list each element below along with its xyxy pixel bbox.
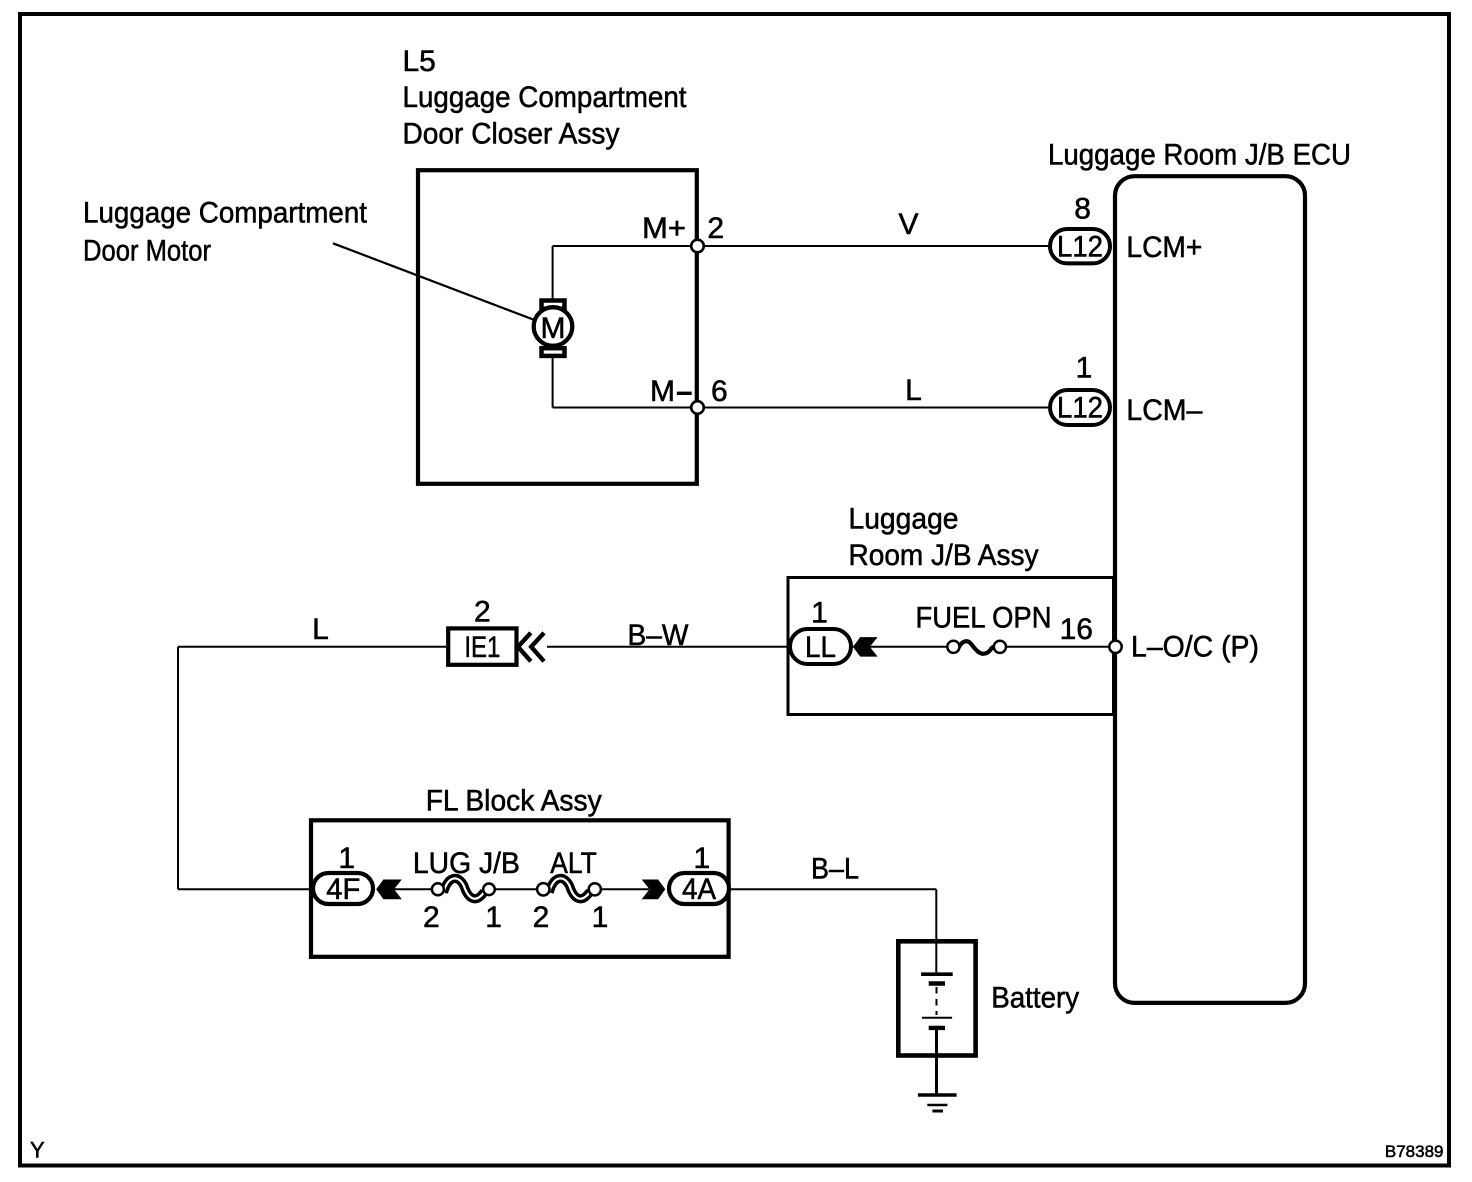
svg-text:Door Motor: Door Motor bbox=[83, 234, 211, 267]
svg-text:2: 2 bbox=[533, 901, 550, 934]
wire IE1 to LL bbox=[547, 646, 870, 648]
motor brush bottom bbox=[542, 348, 565, 356]
svg-text:M: M bbox=[650, 375, 675, 408]
svg-text:2: 2 bbox=[474, 595, 491, 628]
fusible link ALT right terminal bbox=[589, 883, 601, 895]
motor M circle bbox=[534, 307, 573, 346]
wire M- vertical from motor bbox=[552, 356, 554, 408]
pin 2 circle bbox=[691, 240, 704, 253]
pin 6 circle bbox=[691, 401, 704, 414]
connector IE1 box bbox=[448, 628, 516, 664]
svg-text:LUG J/B: LUG J/B bbox=[413, 847, 520, 880]
fuse FUEL OPN wave bbox=[958, 641, 995, 653]
svg-text:B–L: B–L bbox=[811, 853, 859, 886]
wire LUG to ALT bbox=[495, 888, 539, 890]
svg-text:Y: Y bbox=[30, 1138, 45, 1163]
svg-text:L12: L12 bbox=[1057, 392, 1103, 425]
label Luggage Compartment Door Motor bbox=[83, 197, 368, 268]
connector LL bbox=[790, 629, 851, 664]
wire B-L vertical to battery bbox=[935, 889, 937, 943]
wire 4F arrow to LUG fuse bbox=[394, 888, 438, 890]
svg-text:LCM–: LCM– bbox=[1126, 394, 1202, 427]
battery plate short bottom bbox=[929, 1026, 945, 1030]
chevrons at IE1 bbox=[518, 633, 544, 662]
wire M+ vertical from motor bbox=[552, 246, 554, 300]
svg-text:M: M bbox=[541, 312, 566, 345]
svg-text:B78389: B78389 bbox=[1385, 1142, 1444, 1161]
wire to IE1 bbox=[178, 646, 446, 648]
wire M- horizontal to L12 bbox=[553, 407, 1048, 409]
battery bottom wire to ground bbox=[935, 1030, 938, 1095]
svg-text:1: 1 bbox=[485, 901, 502, 934]
wire B-L horizontal bbox=[729, 888, 936, 890]
box Luggage Room J/B Assy bbox=[788, 578, 1114, 715]
motor brush top bbox=[542, 301, 565, 309]
svg-text:8: 8 bbox=[1074, 193, 1091, 226]
svg-text:L12: L12 bbox=[1057, 230, 1103, 263]
ECU body Luggage Room J/B ECU bbox=[1115, 176, 1305, 1003]
svg-text:B–W: B–W bbox=[628, 619, 690, 652]
svg-text:1: 1 bbox=[811, 597, 828, 630]
arrow at 4A bbox=[642, 880, 666, 900]
wire fuse to pin 16 bbox=[998, 646, 1113, 648]
wire to 4F bbox=[178, 888, 313, 890]
connector L12 pin 8 bbox=[1050, 229, 1110, 263]
svg-text:1: 1 bbox=[1076, 352, 1093, 385]
wire M+ horizontal to L12 bbox=[553, 245, 1048, 247]
label Luggage Room J/B Assy bbox=[849, 503, 1039, 573]
wire ALT to 4A arrow bbox=[601, 888, 649, 890]
svg-text:Luggage Room J/B ECU: Luggage Room J/B ECU bbox=[1048, 138, 1351, 171]
svg-text:LL: LL bbox=[805, 631, 836, 664]
svg-text:LCM+: LCM+ bbox=[1126, 231, 1202, 264]
svg-text:4F: 4F bbox=[326, 873, 360, 906]
fusible link LUG J/B right terminal bbox=[483, 884, 495, 896]
svg-text:Battery: Battery bbox=[991, 982, 1079, 1015]
battery plate long bottom bbox=[922, 1017, 952, 1019]
battery plate long top bbox=[921, 972, 953, 976]
svg-text:2: 2 bbox=[423, 901, 440, 934]
box Luggage Compartment Door Closer Assy bbox=[418, 170, 697, 484]
svg-text:1: 1 bbox=[592, 901, 609, 934]
svg-text:Luggage Compartment: Luggage Compartment bbox=[83, 197, 368, 230]
svg-text:1: 1 bbox=[694, 842, 711, 875]
fusible link LUG J/B left terminal bbox=[432, 883, 444, 895]
svg-text:2: 2 bbox=[707, 212, 724, 245]
fusible link ALT left terminal bbox=[537, 883, 549, 895]
svg-text:1: 1 bbox=[338, 842, 355, 875]
connector L12 pin 1 bbox=[1050, 390, 1110, 425]
battery top wire bbox=[935, 941, 937, 972]
svg-text:V: V bbox=[898, 208, 918, 241]
ground symbol bbox=[918, 1095, 957, 1111]
battery dashed center bbox=[936, 987, 938, 1015]
battery plate short top bbox=[929, 981, 945, 985]
connector 4F bbox=[313, 873, 373, 904]
svg-text:6: 6 bbox=[711, 375, 728, 408]
arrow at 4F bbox=[376, 880, 402, 900]
svg-text:Room J/B Assy: Room J/B Assy bbox=[849, 539, 1039, 572]
svg-text:M+: M+ bbox=[642, 212, 686, 245]
fusible link LUG J/B band bbox=[444, 878, 485, 898]
svg-text:L: L bbox=[312, 613, 329, 646]
fuse FUEL OPN right terminal bbox=[994, 641, 1006, 653]
svg-text:L–O/C (P): L–O/C (P) bbox=[1131, 631, 1259, 664]
svg-text:4A: 4A bbox=[682, 873, 716, 906]
svg-text:FUEL OPN: FUEL OPN bbox=[916, 602, 1052, 635]
fuse FUEL OPN left terminal bbox=[947, 641, 959, 653]
arrow at LL bbox=[853, 637, 878, 657]
svg-text:IE1: IE1 bbox=[464, 631, 500, 664]
battery box bbox=[898, 941, 975, 1055]
svg-text:16: 16 bbox=[1060, 613, 1093, 646]
leader line to motor bbox=[333, 243, 545, 324]
box FL Block Assy bbox=[311, 820, 729, 957]
svg-text:Luggage: Luggage bbox=[849, 503, 959, 536]
fusible link ALT band bbox=[549, 878, 590, 898]
svg-text:L: L bbox=[905, 374, 922, 407]
label L5 Luggage Compartment Door Closer Assy bbox=[403, 45, 688, 150]
wire LL arrow to fuse bbox=[870, 646, 949, 648]
svg-text:Luggage Compartment: Luggage Compartment bbox=[403, 81, 688, 114]
connector 4A bbox=[669, 873, 729, 904]
wire left vertical bbox=[177, 647, 179, 890]
pin 16 circle bbox=[1109, 641, 1121, 653]
svg-text:Door Closer Assy: Door Closer Assy bbox=[403, 117, 620, 150]
svg-text:L5: L5 bbox=[403, 45, 436, 78]
svg-text:FL Block Assy: FL Block Assy bbox=[426, 784, 602, 817]
